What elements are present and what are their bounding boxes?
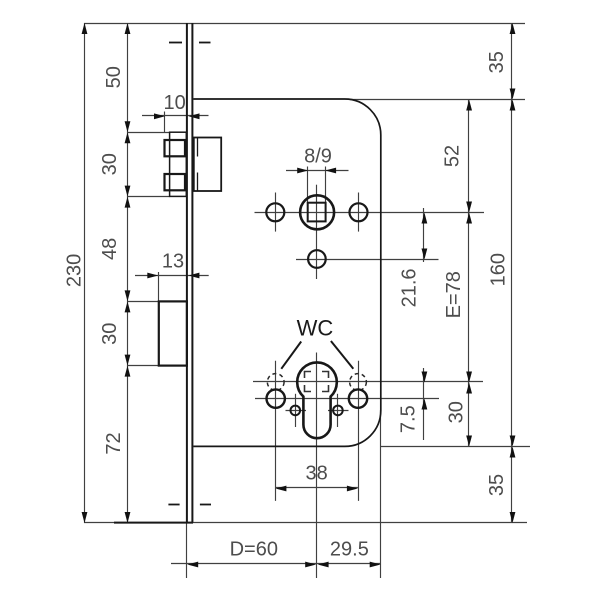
faceplate right edge (191, 23, 193, 523)
center line spindle horizontal (255, 212, 485, 214)
arrows 21.6 (422, 213, 428, 260)
center line cylinder vertical (316, 353, 318, 579)
svg-text:29.5: 29.5 (330, 538, 369, 560)
faceplate left edge (186, 23, 188, 523)
arrows 30 left (125, 301, 131, 365)
ext 8-9 right (325, 167, 327, 203)
dim line 13 (135, 275, 209, 277)
arrows 8-9 (297, 168, 336, 174)
ext D60 left vertical (186, 523, 188, 578)
svg-text:50: 50 (103, 66, 125, 88)
ext 10 left (164, 112, 166, 134)
dim line 38 (275, 487, 358, 489)
ext latch top (128, 132, 170, 134)
arrows 38 (275, 486, 358, 492)
svg-text:30: 30 (99, 323, 121, 345)
bottom line thick segment near faceplate (114, 522, 193, 524)
center line small circle right (337, 394, 339, 427)
arrows 10 (154, 113, 200, 119)
arrows 52 (466, 100, 472, 213)
svg-text:48: 48 (99, 238, 121, 260)
cylinder dashed square (305, 372, 329, 392)
lock case outline (193, 99, 380, 446)
center line cylinder horizontal (253, 381, 483, 383)
faceplate break dash bottom-right (200, 504, 211, 506)
svg-text:D=60: D=60 (230, 539, 278, 561)
arrows 35 bottom (510, 447, 516, 524)
center line screw hole right (358, 193, 360, 232)
ext case-top right (350, 99, 525, 101)
dim line 50-30-48-30-72 vertical (127, 23, 129, 523)
center line screw hole left (275, 193, 277, 232)
latch tail inside case (194, 138, 221, 192)
arrows 72 (125, 366, 131, 523)
svg-text:160: 160 (488, 253, 510, 286)
deadbolt (159, 301, 187, 365)
arrows 48 (125, 197, 131, 302)
dim line 8-9 (286, 170, 349, 172)
svg-text:E=78: E=78 (443, 271, 465, 318)
dashed circle right (WC follower) (350, 374, 367, 391)
screw hole right (350, 203, 368, 221)
arrows 30 top-left (125, 132, 131, 196)
small circle right (333, 406, 343, 416)
svg-text:30: 30 (99, 153, 121, 175)
dim line 35-160-35 vertical (511, 23, 513, 523)
ext case-bottom right (381, 446, 530, 448)
svg-text:52: 52 (442, 145, 464, 167)
ext top line (84, 23, 525, 25)
dim line 7.5 vertical (423, 368, 425, 440)
cylinder profile WC (297, 362, 337, 438)
latch tail inner line lower (197, 173, 199, 192)
arrows 30 right (466, 383, 472, 447)
arrows 29.5 (318, 562, 381, 568)
ext side circles (255, 398, 439, 400)
center tick small circle left (286, 410, 307, 412)
spindle square 8-9 (308, 203, 326, 222)
svg-text:35: 35 (486, 51, 508, 73)
solid circle right (349, 389, 367, 407)
center line small circle left (295, 394, 297, 427)
ext 13 left (158, 272, 160, 302)
latch tooth lower (165, 174, 186, 190)
svg-text:38: 38 (305, 463, 327, 485)
WC leader left (281, 342, 301, 369)
dim line 10 (142, 115, 209, 117)
arrows 35 top (510, 23, 516, 100)
ext latch bottom (128, 196, 170, 198)
svg-text:WC: WC (297, 315, 334, 340)
center line left circles vertical (275, 361, 277, 501)
svg-text:30: 30 (445, 401, 467, 423)
svg-text:230: 230 (64, 254, 86, 287)
arrows D60 (187, 562, 316, 568)
latch tooth upper (165, 140, 186, 156)
small circle left (291, 406, 301, 416)
svg-text:7.5: 7.5 (397, 405, 419, 433)
ext deadbolt bottom (128, 365, 159, 367)
center line right circles vertical (358, 361, 360, 501)
dim line D60 29.5 (171, 563, 381, 565)
arrows 230 (82, 23, 88, 523)
dim line 52-E78-30 vertical (468, 99, 470, 446)
spindle hub circle (300, 195, 334, 229)
dim line 230 vertical (84, 23, 86, 523)
screw hole left (266, 203, 284, 221)
arrows E78 (466, 213, 472, 383)
ext bottom line (84, 522, 527, 524)
svg-text:8/9: 8/9 (304, 145, 332, 167)
svg-text:21.6: 21.6 (399, 268, 421, 307)
faceplate break dash top-right (199, 42, 211, 44)
arrows 50 (125, 23, 131, 132)
faceplate break dash bottom-left (168, 504, 179, 506)
arrows 13 (147, 273, 199, 279)
center line spindle vertical (316, 185, 318, 279)
ext deadbolt top (128, 301, 159, 303)
ext 29.5 right vertical (380, 410, 382, 578)
solid circle left (267, 389, 285, 407)
arrows 160 (510, 100, 516, 447)
center tick small circle right (328, 410, 349, 412)
svg-text:72: 72 (103, 432, 125, 454)
ext 8-9 left (307, 167, 309, 203)
ext aux hole (296, 259, 439, 261)
auxiliary hole (308, 250, 326, 268)
latch tail inner line upper (197, 138, 199, 157)
svg-text:10: 10 (163, 92, 185, 114)
faceplate break dash top-left (169, 42, 182, 44)
svg-text:13: 13 (162, 250, 184, 272)
dashed circle left (WC follower) (267, 374, 284, 391)
latch head outer (170, 132, 187, 196)
arrows 7.5 (422, 372, 428, 410)
dim line 21.6 vertical (423, 208, 425, 262)
WC leader right (331, 341, 353, 369)
svg-text:35: 35 (486, 474, 508, 496)
